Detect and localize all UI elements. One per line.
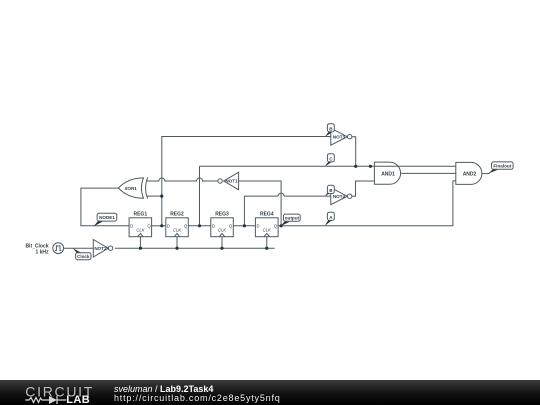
svg-text:output: output: [285, 216, 300, 221]
wire AND2 output: [482, 173, 489, 175]
svg-text:XOR1: XOR1: [124, 186, 137, 191]
footer text: [114, 385, 281, 403]
flag A: [325, 212, 335, 226]
wire NOT1 output to XOR1 upper input with hops: [146, 178, 217, 181]
junction Q3 node: [243, 224, 246, 227]
wire REG3 CLK stub: [221, 237, 223, 249]
svg-text:1 kHz: 1 kHz: [35, 249, 49, 255]
wire REG4 CLK stub: [266, 237, 268, 249]
footer bar: [0, 380, 540, 405]
wire NOT4 output up to AND1 lower input: [352, 181, 374, 196]
NOT3: [331, 128, 352, 145]
flag Finalout: [488, 162, 513, 174]
wire REG1 Q to REG2 D: [152, 225, 166, 227]
flag B upper: [325, 124, 335, 137]
wire node Q3 up to net B lower rail to NOT4 input with hop: [244, 193, 330, 226]
wire node Q1 up to net B top rail: [162, 137, 331, 226]
wire NOT1 input from node Q4: [239, 181, 282, 226]
NOT4: [331, 188, 352, 205]
svg-text:AND1: AND1: [381, 171, 395, 177]
wire REG1 CLK stub: [139, 237, 141, 249]
wire NOT2 output to clock bus: [115, 247, 275, 249]
junction XOR1 lower input at Q1 riser: [160, 195, 163, 198]
AND2: [456, 162, 482, 184]
label Bit_Clock 1 kHz: [25, 243, 49, 255]
wire REG2 CLK stub: [176, 237, 178, 249]
svg-text:CLK: CLK: [136, 228, 144, 233]
junction clock bus REG3: [220, 247, 223, 250]
wire REG3 Q to REG4 D: [233, 225, 255, 227]
wire NOT3 output down to net C rail: [352, 137, 356, 167]
junction Q4 node: [280, 224, 283, 227]
wire node Q2 up to net C rail: [199, 166, 201, 226]
svg-text:CLK: CLK: [173, 228, 181, 233]
CircuitLab logo: [24, 383, 104, 405]
wire XOR1 output to node NODE1 to REG1 D: [81, 188, 129, 226]
svg-text:CLK: CLK: [263, 228, 271, 233]
register REG2: [166, 218, 189, 237]
svg-text:AND2: AND2: [463, 172, 477, 178]
svg-text:NOT1: NOT1: [225, 179, 238, 184]
flag Clock: [73, 248, 91, 260]
wire REG2 Q to REG3 D: [188, 225, 211, 227]
XOR1: [118, 177, 147, 198]
junction Q1 node: [160, 224, 163, 227]
svg-text:REG4: REG4: [260, 212, 274, 218]
svg-text:Finalout: Finalout: [493, 164, 511, 169]
flag B lower: [325, 185, 335, 196]
svg-text:REG3: REG3: [215, 212, 229, 218]
svg-text:NOT4: NOT4: [333, 194, 346, 199]
junction Q2 node: [198, 224, 201, 227]
junction net C at AND1 input: [369, 165, 372, 168]
svg-text:CLK: CLK: [218, 228, 226, 233]
register REG3: [211, 218, 234, 237]
svg-text:REG1: REG1: [133, 212, 147, 218]
wire clock source to NOT2 input: [64, 247, 94, 249]
wire XOR1 lower input from node Q1: [147, 195, 162, 197]
AND1: [374, 162, 400, 184]
flag C: [325, 154, 335, 167]
flag NODE1: [94, 213, 117, 226]
flag output: [280, 214, 300, 226]
NOT2: [93, 240, 113, 258]
NOT1: [218, 172, 239, 189]
register REG4: [255, 218, 278, 237]
svg-text:D: D: [257, 223, 260, 228]
svg-text:NOT3: NOT3: [333, 134, 346, 139]
junction clock bus REG2: [175, 247, 178, 250]
junction clock bus REG1: [139, 247, 142, 250]
svg-text:D: D: [130, 223, 133, 228]
wire AND1 output to AND2 middle input: [401, 172, 456, 174]
svg-text:D: D: [212, 223, 215, 228]
wire net C rail from Q2 over AND1 to AND2 upper input: [200, 165, 456, 167]
wire REG4 Q to net A to AND2 lower input: [278, 181, 456, 226]
svg-text:LAB: LAB: [66, 394, 90, 405]
clock source V1: [53, 243, 64, 254]
register REG1: [129, 218, 152, 237]
junction clock bus REG4: [265, 247, 268, 250]
svg-text:NOT2: NOT2: [94, 246, 107, 251]
svg-text:REG2: REG2: [170, 212, 184, 218]
junction NOT3 output on net C: [354, 165, 357, 168]
svg-text:Clock: Clock: [77, 254, 90, 259]
svg-text:D: D: [167, 223, 170, 228]
svg-text:NODE1: NODE1: [99, 215, 115, 220]
